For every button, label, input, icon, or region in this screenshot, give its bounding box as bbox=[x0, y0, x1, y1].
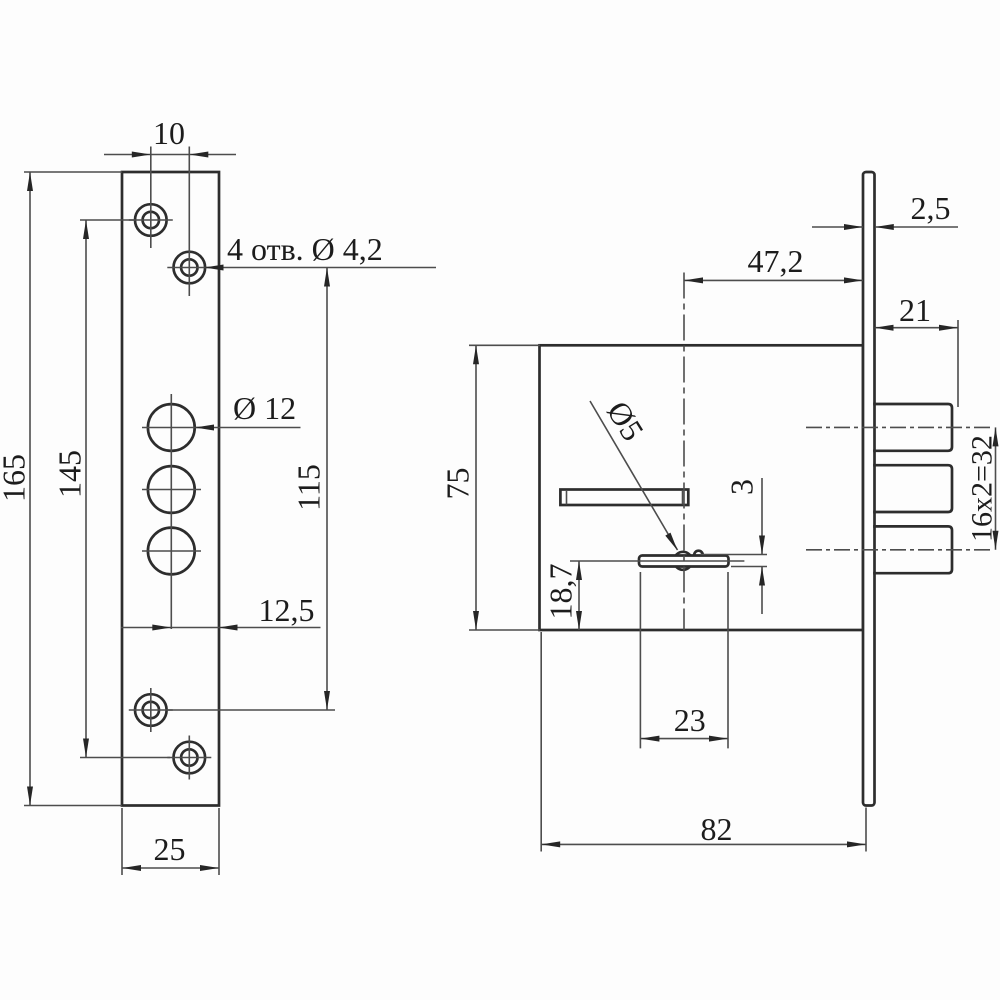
dimension 18,7 bbox=[543, 561, 583, 630]
bolt hole B3 horizontal centerline bbox=[142, 550, 201, 552]
svg-text:115: 115 bbox=[291, 464, 327, 511]
bolt hole B1 bbox=[148, 404, 195, 451]
dimension 10 bbox=[104, 115, 236, 296]
bolt hole B2 horizontal centerline bbox=[142, 489, 201, 491]
leader dia 5 bbox=[590, 395, 678, 551]
bolt hole B3 bbox=[148, 528, 195, 575]
screw hole H1 top-left bbox=[129, 204, 173, 236]
svg-text:Ø 12: Ø 12 bbox=[233, 390, 296, 426]
svg-text:10: 10 bbox=[153, 115, 185, 151]
leader 4 holes dia 4,2 bbox=[205, 231, 437, 271]
dimension 2,5 bbox=[812, 190, 958, 230]
svg-text:12,5: 12,5 bbox=[259, 592, 315, 628]
keyhole bar bbox=[639, 556, 729, 567]
screw hole H3 lower bbox=[129, 688, 173, 732]
dimension 47,2 bbox=[684, 243, 863, 283]
svg-text:3: 3 bbox=[724, 479, 760, 495]
dimension 75 bbox=[440, 345, 541, 630]
bolt b1 bbox=[875, 404, 953, 451]
bolt holes vertical centerline bbox=[170, 394, 172, 629]
svg-text:18,7: 18,7 bbox=[543, 564, 579, 620]
dimension 145 bbox=[52, 220, 171, 758]
svg-text:2,5: 2,5 bbox=[911, 190, 951, 226]
bolt hole B1 horizontal centerline bbox=[142, 427, 201, 429]
screw hole H4 bottom bbox=[167, 736, 211, 780]
svg-text:82: 82 bbox=[701, 811, 733, 847]
front plate side view bbox=[863, 172, 875, 806]
svg-text:16x2=32: 16x2=32 bbox=[966, 435, 999, 542]
dimension 25 bbox=[122, 808, 219, 875]
bolt b2 bbox=[875, 465, 953, 512]
screw hole H2 upper bbox=[167, 252, 211, 284]
svg-text:47,2: 47,2 bbox=[748, 243, 804, 279]
handle follower slot bbox=[560, 490, 688, 506]
keyhole dia 5 circle bbox=[674, 552, 692, 570]
bolt hole B2 bbox=[148, 466, 195, 513]
bolt b1 centerline bbox=[806, 426, 994, 428]
faceplate outline bbox=[122, 172, 219, 806]
lock body outline bbox=[540, 345, 864, 630]
dimension 23 bbox=[640, 572, 728, 748]
dimension 12,5 bbox=[121, 592, 321, 631]
dimension 165 bbox=[0, 172, 122, 806]
dimension 21 bbox=[875, 292, 959, 407]
svg-text:23: 23 bbox=[674, 702, 706, 738]
svg-text:75: 75 bbox=[440, 468, 476, 500]
leader dia 12 bbox=[195, 390, 301, 431]
svg-text:4 отв. Ø 4,2: 4 отв. Ø 4,2 bbox=[227, 231, 383, 267]
bolt b3 bbox=[875, 526, 953, 573]
svg-text:165: 165 bbox=[0, 454, 32, 502]
svg-text:25: 25 bbox=[154, 831, 186, 867]
svg-text:145: 145 bbox=[52, 450, 88, 498]
dimension 3 bbox=[700, 478, 767, 614]
dimension 16x2=32 bbox=[966, 427, 999, 549]
svg-text:21: 21 bbox=[899, 292, 931, 328]
keyhole small lug bbox=[694, 551, 703, 560]
dimension 115 bbox=[167, 268, 335, 711]
keyhole vertical axis bbox=[683, 273, 685, 631]
dimension 82 bbox=[541, 632, 866, 852]
bolt b3 centerline bbox=[806, 549, 994, 551]
keyhole horizontal centerline bbox=[570, 560, 744, 562]
